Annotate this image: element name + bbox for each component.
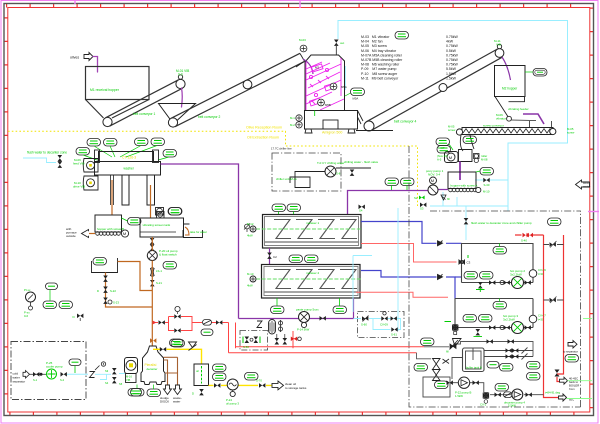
wire: buffer tank to pump [452,358,544,395]
screw conveyor zigzag [448,121,575,135]
svg-text:hopper with screw B: hopper with screw B [97,227,124,231]
hot pump 2 [512,277,524,289]
conveyor2 discharge into machine [296,54,305,68]
svg-text:outside: outside [66,234,76,238]
frame: magenta tick right middle [588,211,599,213]
vibrator bracket 2 [83,176,98,190]
wire: cyan branch washer M6 [475,179,508,181]
svg-text:vibrator: vibrator [496,117,506,121]
bypass valve below [476,282,485,292]
yellow dashed room boundary [8,131,418,208]
wire: purple paste header to decanter feed [239,318,354,320]
CV circle on right edge [529,315,537,323]
svg-text:M: M [449,155,452,160]
conveyor belt conveyor 2 [168,53,304,127]
Z lever valve symbol [257,321,262,328]
svg-text:from: from [569,387,575,391]
fill funnel [446,339,461,354]
svg-text:vibrating feeder: vibrating feeder [508,107,529,111]
pony pump M on paste line [426,169,444,195]
wire: cyan flush line [23,158,56,163]
motor under washer right [156,208,164,216]
svg-text:to separator: to separator [563,350,578,354]
butterfly valve w/ lever [90,362,106,378]
M-04 fan capsule [533,69,547,77]
malaxer 1 [247,204,361,248]
svg-text:hopper with screw A: hopper with screw A [451,184,478,188]
check valve on blue 1 [438,241,443,246]
svg-text:M-03: M-03 [299,38,306,42]
svg-text:0.75kW: 0.75kW [446,58,459,62]
svg-text:C3: C3 [467,261,471,265]
svg-text:M-1: M-1 [290,116,295,120]
svg-text:M3: M3 [315,66,319,70]
chute zigzag to washer M6 [460,135,474,151]
wire: orange drain from box bottom [106,273,153,308]
wire: cyan cold water main [338,21,568,212]
to separator arrow [563,341,579,363]
small valves before pump [489,280,495,285]
wire: red main to decanter line [156,323,236,353]
svg-text:4kW: 4kW [446,40,454,44]
valve on red [159,320,165,325]
wire: purple washer outlet to malaxer line [161,164,239,319]
wire: blue return malaxer2 [361,271,455,299]
wire: cyan to centrifuge [95,374,125,380]
svg-text:paste pump 5xxx: paste pump 5xxx [296,308,319,312]
float switch symbol [151,268,155,277]
svg-text:oil: oil [196,369,199,373]
wire: cyan vertical x353 [353,256,372,313]
washer main body [95,162,161,176]
svg-text:to storage tanks: to storage tanks [285,386,307,390]
svg-text:M-08 M6 washing roller: M-08 M6 washing roller [361,63,400,67]
wire: cyan vertical x398 [397,208,399,331]
paste pump 5 [296,308,319,332]
double valves vertical [105,368,123,386]
wire: purple drop conveyor1 to chute [181,88,184,107]
wire: red lower headers [236,346,425,348]
svg-text:A-5: A-5 [437,158,442,162]
sampling valve on yellow [189,342,197,351]
valve rows above pumps [484,348,533,360]
svg-text:S-50: S-50 [243,345,249,349]
hopper with screw B (tank A) [95,215,141,237]
svg-text:S-1: S-1 [33,378,38,382]
vertical centrifuge motor unit [125,358,142,397]
svg-text:CV-09: CV-09 [380,323,388,327]
belt conveyor 4 [364,121,374,131]
machine base [305,111,358,130]
svg-text:M-08: M-08 [481,158,488,162]
svg-text:cooler pump: cooler pump [46,365,63,369]
svg-text:P-10 M8 screw auger: P-10 M8 screw auger [361,72,398,76]
star valve CV [480,392,489,406]
svg-text:C2: C2 [273,255,277,259]
svg-text:belt conveyor 2: belt conveyor 2 [198,115,221,119]
capsule labels right top [548,218,562,226]
svg-text:separator: separator [13,380,26,384]
wire: cyan out of separator [67,373,88,375]
svg-text:screw: screw [448,128,456,132]
svg-text:S-2: S-2 [60,378,65,382]
svg-text:M-13: M-13 [247,272,254,276]
hopper M2 [495,66,548,97]
svg-text:fill: fill [447,197,450,201]
label leader lines [83,146,169,161]
svg-text:S-8: S-8 [336,172,341,176]
svg-text:S-22: S-22 [110,289,116,293]
small valves near pony pump [414,196,425,201]
svg-text:& float switch: & float switch [159,253,177,257]
label capsules below malaxer2 [271,306,285,314]
twin isolation valves [33,372,39,377]
svg-text:S-40: S-40 [521,239,527,243]
wire: orange decanter feed with valve [151,341,153,346]
box with capsule [423,377,450,397]
svg-text:water: water [583,185,590,189]
water valve on top [334,40,339,46]
svg-text:0.5kW: 0.5kW [446,49,457,53]
svg-text:0.75kW: 0.75kW [446,63,459,67]
flush water valve [464,218,469,224]
wire: purple olive entry curve [303,59,313,74]
svg-text:chilling water - flush valve: chilling water - flush valve [344,160,379,164]
svg-text:M-07A M5A cleaning roller: M-07A M5A cleaning roller [361,53,403,57]
svg-text:M-04 M2 fan: M-04 M2 fan [361,40,383,44]
wire: orange from settling box [118,262,153,291]
dash-dot zone boundary right [430,210,581,213]
svg-text:vibrating screen tank: vibrating screen tank [143,223,171,227]
svg-text:M-07B M5B cleaning roller: M-07B M5B cleaning roller [361,58,403,62]
svg-text:VIB: VIB [496,43,501,47]
svg-text:5.5kW: 5.5kW [446,67,457,71]
svg-text:PI-xx: PI-xx [24,288,31,292]
label capsules washer [87,139,101,147]
decanter body [131,346,166,397]
valve manifold box [240,331,268,351]
wire: orange drop washer to tank A [111,180,113,215]
svg-text:CV-1: CV-1 [480,403,487,407]
svg-text:M-03 M1 vibrator: M-03 M1 vibrator [361,35,390,39]
svg-text:oil pump 3: oil pump 3 [226,402,239,406]
svg-text:M5A: M5A [341,85,347,89]
washer legs [122,175,129,205]
olives feed arrow [70,53,93,61]
svg-text:4kW: 4kW [247,284,253,288]
buffer tank B [463,348,485,372]
to boiler arrow [560,377,580,392]
drop pipes under washer [111,175,114,205]
inlet arrow [23,371,30,379]
svg-text:S4: S4 [105,381,109,385]
svg-text:S-61: S-61 [391,333,397,337]
cleaning tower funnel [495,97,536,122]
dash-dot vertical left of circuits [409,146,581,407]
discharge chute right [358,111,364,125]
3-way valve C3 [459,255,471,265]
oil receiver tank [192,364,209,396]
vibrating screen tank (tank B) [140,208,207,238]
svg-text:washer: washer [124,167,135,171]
valve C2 between malaxers [267,253,277,260]
wire: red supply malaxer2 [356,292,448,297]
svg-text:M2 hopper: M2 hopper [502,87,518,91]
svg-text:M5B: M5B [325,103,331,107]
pump B [447,377,479,398]
sludge arrows down [160,385,182,404]
valves + oil pump P-20 under tank B [147,238,178,286]
chiller pump [325,166,336,177]
check valve on blue 2 [438,274,443,279]
vibrator bracket 1 [83,159,98,173]
wire: black to red main [500,364,514,372]
auger tank hopper with screw A [448,168,494,194]
wire: cyan into amigron [344,66,346,90]
svg-text:NOV. 3-4: NOV. 3-4 [428,173,441,177]
svg-text:D: D [192,392,194,396]
wire: red stub x293 [293,331,297,348]
label capsules above paste line [385,178,399,186]
wire: purple washer M6 to auger tank [459,162,461,181]
svg-text:fill: fill [446,350,449,354]
wire: purple conveyor4 into M2 hopper [502,57,511,80]
wire: red return to boiler arrow [557,370,564,382]
svg-text:belt conveyor 4: belt conveyor 4 [394,120,417,124]
CV circle on right edge [529,270,537,278]
wire: blue return malaxer1 [361,222,462,244]
svg-text:M-11 M9 belt conveyor: M-11 M9 belt conveyor [361,76,399,80]
magenta internals [306,58,344,110]
svg-text:buffer tank B: buffer tank B [466,366,482,370]
svg-text:0.75kW: 0.75kW [446,35,459,39]
svg-text:take for water: take for water [190,230,207,234]
svg-text:0.75kW: 0.75kW [446,44,459,48]
svg-text:M5A: M5A [353,97,359,101]
svg-text:S4: S4 [359,209,363,213]
wire: cyan header to flush [430,192,508,240]
wire: purple malaxer1 to malaxer2 [269,248,271,264]
clean oil arrow [272,381,307,390]
cooler pump green [47,369,57,379]
svg-text:M: M [123,231,126,236]
svg-text:out: out [340,41,344,45]
svg-text:T-0 CY chilling water: T-0 CY chilling water [317,161,344,165]
wire: purple main paste line to malaxers [348,190,449,215]
svg-text:flush water to decanter zone: flush water to decanter zone [27,151,67,155]
wire: yellow oil from decanter [153,349,202,364]
wire: green line top right [583,318,592,320]
svg-text:M-2: M-2 [290,123,295,127]
svg-text:feed VIB: feed VIB [73,162,85,166]
svg-text:M: M [431,178,434,183]
svg-text:olives: olives [70,56,79,60]
small settling box [92,258,118,273]
svg-text:M1 receival hopper: M1 receival hopper [90,88,120,92]
chiller coil [290,172,325,188]
machine body [305,55,345,111]
svg-text:S-60: S-60 [361,323,367,327]
hopper M1 receival hopper [86,67,150,119]
svg-text:5.5kW: 5.5kW [508,404,516,408]
wire: black link into box2 [455,276,462,278]
svg-text:3x2.2kW: 3x2.2kW [503,318,515,322]
wire: green dashed from border to arrows [568,380,593,382]
wire: orange drop washer to tank B [150,185,152,218]
svg-text:D: D [97,289,99,293]
bottom run with pump [462,282,534,284]
wire: red main return vertical [563,235,565,370]
wire: red supply malaxer1 [361,244,457,263]
M5A capsule label [345,88,365,101]
vertical valve pair right of manifold [275,334,288,345]
4-way star valve [445,322,459,335]
cold water entry arrow right [576,180,591,189]
inline filter capsule [269,320,276,335]
red double valve on top feed [521,233,533,243]
svg-text:S2: S2 [414,196,418,200]
svg-text:flush water to decanter zone a: flush water to decanter zone and chiller… [471,221,532,225]
oil pump P-24 [226,379,239,406]
wire: olives purple feed into hopper M1 [93,57,98,73]
pomace arrow [66,227,89,238]
svg-text:t=84-91 deg: t=84-91 deg [545,391,560,395]
svg-text:screw conveyor: screw conveyor [483,124,504,128]
flush water valve XX [27,151,67,168]
drain valve DX [73,314,84,322]
bypass valve below [474,329,483,337]
wire: orange pomace out [89,233,95,235]
svg-text:Olive Reception Room: Olive Reception Room [246,126,282,130]
svg-text:0.75kW: 0.75kW [446,53,459,57]
pressure gauge cluster [24,288,36,318]
svg-text:S3: S3 [105,369,109,373]
svg-text:3x2.2kW: 3x2.2kW [510,273,522,277]
wire: red top feed [515,234,544,236]
valve on return main [555,370,560,377]
svg-text:S5: S5 [119,382,123,386]
red bypass loop [169,317,193,331]
svg-text:chiller unit M-xx: chiller unit M-xx [276,177,297,181]
valves on orange drain [103,276,108,282]
svg-text:VIB: VIB [126,378,130,382]
svg-text:water: water [173,400,180,404]
svg-text:belt conveyor 1: belt conveyor 1 [133,112,156,116]
svg-text:M-06 M4 tray vibrator: M-06 M4 tray vibrator [361,49,397,53]
washing roller unit M6 [436,138,488,163]
crossover valves [544,241,564,248]
svg-text:malaxer 2: malaxer 2 [306,271,320,275]
svg-text:M-10: M-10 [483,190,490,194]
svg-text:17.7C chiller line: 17.7C chiller line [271,147,292,151]
vent funnel on paste line [441,195,446,200]
svg-text:S-21: S-21 [156,281,162,285]
svg-text:S-23: S-23 [113,301,119,305]
check capsule [504,392,513,398]
washer upper tank [99,152,154,162]
svg-text:drive VIB: drive VIB [73,185,85,189]
svg-text:M-12: M-12 [247,222,254,226]
svg-text:P-09 M7 water pump: P-09 M7 water pump [361,67,396,71]
duplex symbol [279,320,283,332]
svg-text:DISCK: DISCK [160,400,169,404]
wire: brown sludge lines [164,357,178,385]
svg-text:decanter: decanter [147,367,158,371]
check valve capsule on red [203,320,212,326]
svg-text:S-30: S-30 [484,183,490,187]
wire: purple tower discharge [523,114,544,124]
wire: chilled water out [336,167,371,169]
hot pump 3 [512,322,524,334]
svg-text:M-05 M3 screw: M-05 M3 screw [361,44,387,48]
svg-text:S3: S3 [420,207,424,211]
overflow weir + tub [184,224,190,237]
motor circles inside [330,83,337,90]
wire: purple malaxer2 outlet [353,298,355,319]
svg-text:0-6: 0-6 [24,314,28,318]
malaxer 2 [247,265,361,299]
chute funnel 2 [159,104,196,121]
svg-text:Oil Extraction Room: Oil Extraction Room [247,136,279,140]
wire: orange oil line tank B down to decanter [151,237,153,341]
wire: yellow oil to storage [209,384,272,386]
svg-text:CT-126-3: CT-126-3 [122,156,136,160]
svg-text:screw: screw [567,131,575,135]
svg-text:1.5kW: 1.5kW [455,394,463,398]
svg-text:LS-1: LS-1 [156,269,162,273]
conveyor M-01 belt conveyor 1 [103,69,189,127]
left motors [296,115,302,121]
decanter pump 4 [504,389,525,408]
small drain symbol [244,224,250,233]
wire: red main supply vertical [544,235,559,398]
3-way tall valve [433,359,441,381]
from boiler arrow [559,394,575,402]
frame: magenta tick top center [299,0,301,8]
svg-text:Amigron 500: Amigron 500 [322,131,342,135]
svg-text:P-14 3kW: P-14 3kW [297,328,310,332]
svg-text:malaxer 1: malaxer 1 [306,221,320,225]
svg-text:4kW: 4kW [247,234,253,238]
svg-text:0-0: 0-0 [178,73,183,77]
